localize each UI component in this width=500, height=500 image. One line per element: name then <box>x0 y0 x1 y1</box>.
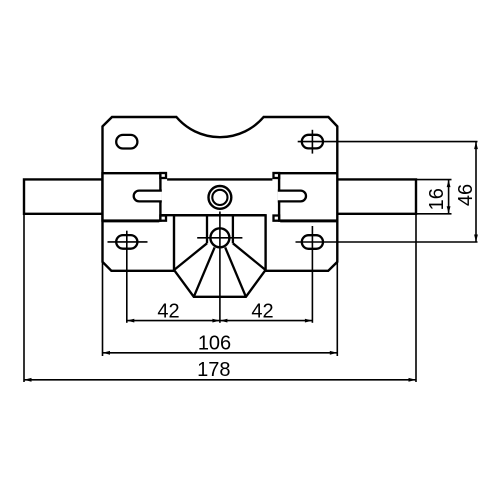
wire center band top edge <box>167 178 272 180</box>
svg-text:178: 178 <box>197 359 230 381</box>
screw crosshair horizontal <box>197 237 242 239</box>
arrow 106 left <box>103 351 111 355</box>
spring cover fan <box>174 215 266 296</box>
knob inner circle <box>212 190 227 205</box>
bolt rod left <box>24 179 103 213</box>
wire center band bottom edge <box>160 214 265 216</box>
fan neck right <box>232 215 234 243</box>
fan rib inner-right <box>225 247 246 296</box>
extension line 178 left <box>23 214 25 382</box>
extension line 106 left <box>102 262 104 356</box>
crosshair bottom-left oval horizontal <box>108 241 148 243</box>
fan neck left <box>206 215 208 243</box>
screw slot hole top-left <box>116 135 137 149</box>
keeper slot right <box>278 191 306 202</box>
tab bottom-right <box>274 216 280 221</box>
wire lower section top edge left <box>103 220 160 222</box>
screw boss circle <box>210 228 229 247</box>
arrow 106 right <box>330 351 338 355</box>
screw slot hole top-right <box>302 135 323 149</box>
keeper slot left <box>134 191 162 202</box>
extension line 46 bottom through oval <box>296 241 478 243</box>
extension line 16 top <box>417 179 452 181</box>
arrow 178 left <box>24 378 32 382</box>
arrow 42 right <box>305 319 313 323</box>
fan rib outer-left <box>174 243 207 270</box>
extension line bottom-right oval vertical <box>311 226 313 323</box>
extension line 178 right <box>415 214 417 382</box>
tab bottom-left <box>160 216 166 221</box>
centerline vertical <box>219 212 221 323</box>
tab top-left <box>160 173 166 178</box>
svg-text:46: 46 <box>455 184 477 206</box>
dimension line 178 <box>24 379 416 381</box>
bolt rod right <box>337 179 416 213</box>
svg-text:42: 42 <box>251 301 273 323</box>
arrow 46 down <box>474 235 478 243</box>
screw slot hole bottom-right <box>302 235 323 249</box>
arrow 42 center-left <box>212 319 220 323</box>
svg-text:16: 16 <box>426 188 448 210</box>
extension line 16 bottom <box>417 213 452 215</box>
arrow 16 up <box>447 180 451 188</box>
extension line 106 right <box>336 262 338 356</box>
fan rib outer-right <box>233 243 266 270</box>
knob outer circle <box>209 186 232 209</box>
crosshair top-right oval vertical <box>311 130 313 154</box>
arrow 178 right <box>409 378 417 382</box>
arrow 42 left <box>127 319 135 323</box>
slide bracket right <box>279 173 337 220</box>
tab top-right <box>274 173 280 178</box>
fan rib inner-left <box>194 247 215 296</box>
dimension line 106 <box>103 352 338 354</box>
extension line bottom-left oval vertical <box>126 231 128 323</box>
arrow 42 center-right <box>220 319 228 323</box>
arrow 46 up <box>474 142 478 150</box>
screw slot hole bottom-left <box>116 235 137 249</box>
backplate body <box>103 117 338 271</box>
arrow 16 down <box>447 206 451 214</box>
slide bracket left <box>103 173 161 220</box>
extension line 46 top through oval <box>298 141 478 143</box>
dimension line 16 <box>448 180 450 214</box>
svg-text:42: 42 <box>157 301 179 323</box>
dimension line 46 <box>475 142 477 242</box>
wire lower section top edge right <box>280 220 337 222</box>
svg-text:106: 106 <box>198 332 231 354</box>
dimension line 42 <box>127 320 313 322</box>
